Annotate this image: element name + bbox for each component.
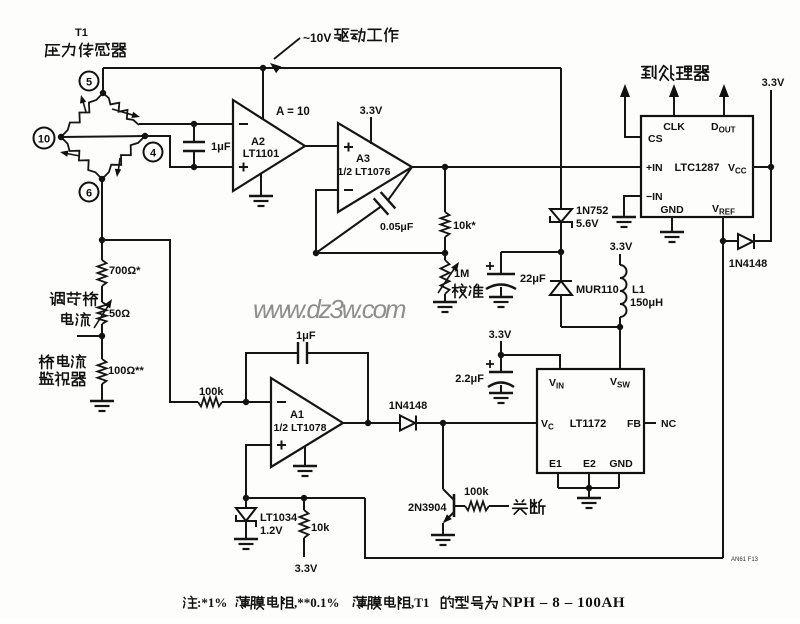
junction A3 feedback bottom-left [313, 250, 319, 256]
svg-text:6: 6 [86, 188, 92, 200]
diode D3 1N4148 (VREF) [723, 234, 754, 249]
wire VREF down [722, 217, 724, 241]
note line [184, 595, 626, 611]
wire A2 V+ supply [262, 68, 264, 119]
wire VC node to Q1 collector [442, 423, 444, 489]
svg-text:10k: 10k [311, 522, 330, 534]
pin 5 [80, 72, 99, 91]
junction A1 out/feedback [365, 420, 371, 426]
ground LT1172 [577, 497, 601, 499]
wire L1 to VSW node [619, 317, 621, 327]
label to processor [642, 66, 709, 81]
wire -IN to ground [624, 196, 641, 217]
ground -IN [612, 216, 636, 218]
svg-text:4: 4 [150, 148, 157, 160]
50 ohm arrow [94, 299, 112, 328]
A1 plus sign [277, 441, 286, 450]
wire A3 supply stub [370, 117, 372, 144]
wire 100 to ground [101, 384, 103, 401]
junction monitor tap [99, 333, 105, 339]
junction VCC 3.3V [768, 164, 774, 170]
wire bridge middle node10 to node4 [61, 136, 145, 137]
IC U2 LTC1287 [641, 116, 753, 217]
label ~10V drive annotation [303, 28, 398, 45]
svg-text:1N4148: 1N4148 [729, 258, 768, 270]
junction bridge-drive sense node [99, 237, 105, 243]
junction LT1034 node [243, 495, 249, 501]
junction VSW node [617, 324, 623, 330]
plus sign 22uF [486, 262, 494, 270]
wire VCC to 3.3V rail [753, 166, 771, 168]
svg-text:3.3V: 3.3V [360, 105, 383, 117]
A3 minus sign [344, 189, 353, 191]
label shutdown [513, 500, 545, 515]
arrow to 10V rail [270, 38, 300, 73]
svg-text:E1: E1 [549, 458, 562, 470]
wire VIN supply [501, 355, 560, 369]
wire DOUT up [723, 96, 725, 116]
pressure sensor bridge: resistor top-right [103, 93, 139, 125]
bridge arrow bottom-right [115, 158, 121, 177]
svg-text:3.3V: 3.3V [762, 77, 785, 89]
arrow CS to processor [620, 84, 630, 97]
pressure sensor bridge T1: resistor top-left [61, 93, 103, 137]
wire base resistor to shutdown [489, 505, 509, 507]
wire FB to NC [644, 422, 656, 424]
wire VREF net down right side [722, 241, 724, 558]
wire A1 ground stub [304, 447, 306, 466]
svg-text:10k*: 10k* [453, 220, 476, 232]
junction 10k bottom [442, 250, 448, 256]
label bridge current [39, 355, 85, 369]
wire A1 output [343, 422, 400, 424]
junction C1 top [191, 121, 197, 127]
svg-text:100Ω**: 100Ω** [108, 365, 144, 377]
wire zener to 10V node [560, 222, 562, 252]
wire 3.3V vertical right [754, 90, 771, 241]
op-amp A3 1/2 LT1076 [338, 123, 412, 212]
wire 1M to ground [444, 294, 446, 302]
ground left chain [90, 400, 114, 402]
node bridge bottom [99, 176, 105, 182]
resistor 100k (base) [465, 502, 489, 511]
wire A1 plus left/down [246, 445, 271, 498]
svg-text:MUR110: MUR110 [576, 284, 619, 296]
label pressure sensor [46, 43, 126, 57]
svg-text:+IN: +IN [646, 162, 663, 174]
svg-text:A2: A2 [251, 136, 265, 148]
ground A2 [249, 195, 273, 197]
resistor 100 ohm [98, 359, 107, 384]
wire monitor tap [77, 335, 102, 337]
svg-text:LT1172: LT1172 [570, 418, 607, 430]
svg-text:50Ω: 50Ω [109, 308, 130, 320]
svg-text:1μF: 1μF [211, 141, 231, 153]
junction 10k tap [301, 495, 307, 501]
svg-text:−IN: −IN [646, 191, 663, 203]
svg-text:E2: E2 [583, 458, 596, 470]
svg-text:1/2 LT1078: 1/2 LT1078 [274, 422, 327, 434]
diode MUR110 [550, 252, 572, 327]
plus sign 2.2uF [486, 360, 494, 368]
arrow DOUT to processor [719, 84, 729, 97]
potentiometer 1M [441, 260, 450, 294]
bridge arrow top-left [80, 95, 86, 112]
wire 700 to 50 [101, 286, 103, 302]
arrow CLK to processor [669, 84, 679, 97]
wire A2 output to A3 [305, 145, 338, 147]
svg-text:3.3V: 3.3V [489, 329, 512, 341]
wire GND down [618, 473, 620, 488]
wire bridge pin4 to A2 plus [145, 136, 233, 167]
wire 50 to 100 [101, 324, 103, 359]
svg-text:1/2 LT1076: 1/2 LT1076 [338, 166, 391, 178]
svg-text:GND: GND [660, 204, 684, 216]
ground LT1034 [234, 538, 258, 540]
wire node to A1 input (right/down) [102, 240, 198, 402]
svg-text:1M: 1M [454, 268, 469, 280]
svg-text:www.dz3w.com: www.dz3w.com [253, 294, 406, 324]
wire 100k to A1 minus [222, 401, 271, 403]
pin 4 [144, 143, 163, 162]
wire A3 out down to 10k [444, 167, 446, 212]
resistor 100k (A1 input) [198, 398, 222, 407]
wire CLK up [673, 96, 675, 116]
svg-text:GND: GND [609, 458, 633, 470]
wire MUR110 to VSW node [561, 326, 620, 328]
IC U3 LT1172 [537, 369, 644, 473]
junction E2 ground [586, 485, 592, 491]
diode D4 1N4148 (A1 out) [400, 416, 443, 431]
bridge arrow bottom-left [60, 151, 80, 157]
node bridge top [100, 90, 106, 96]
svg-text::*1%: :*1% [197, 595, 227, 610]
svg-text:,T1: ,T1 [411, 595, 429, 610]
svg-text:NC: NC [661, 418, 677, 430]
svg-text:1μF: 1μF [296, 330, 316, 342]
wire 3.3V stub [500, 341, 502, 355]
svg-text:LT1034: LT1034 [260, 512, 298, 524]
wire 10k to bottom node [444, 237, 446, 253]
wire down to 1M pot [444, 253, 446, 260]
wire E1 down [557, 473, 559, 488]
svg-text:3.3V: 3.3V [610, 241, 633, 253]
svg-text:1.2V: 1.2V [260, 525, 283, 537]
svg-text:100k: 100k [464, 486, 489, 498]
wire 10k stub [303, 498, 305, 510]
wire A3 bottom feedback horizontal [316, 252, 445, 254]
label adjust bridge [50, 292, 97, 306]
svg-text:,**0.1%: ,**0.1% [294, 595, 340, 610]
node bridge right (pin4) [142, 133, 148, 139]
svg-text:A3: A3 [356, 153, 370, 165]
junction rail-A2 supply [260, 65, 266, 71]
pin 6 [80, 183, 99, 202]
svg-text:700Ω*: 700Ω* [109, 265, 141, 277]
wire A3 output to LTC1287 +IN [412, 166, 641, 168]
svg-text:T1: T1 [75, 27, 88, 39]
wire A2 ground stub [260, 173, 262, 196]
wire ref node to bottom rail [365, 498, 723, 558]
svg-text:3.3V: 3.3V [295, 563, 318, 575]
wire to ground LT1172 [588, 488, 590, 498]
junction 3.3V VIN node [498, 352, 504, 358]
wire GND pin stub [671, 217, 673, 232]
wire emitter bus [558, 487, 619, 489]
svg-text:5.6V: 5.6V [576, 218, 599, 230]
svg-text:10: 10 [38, 134, 50, 146]
svg-text:2.2μF: 2.2μF [455, 373, 484, 385]
op-amp A2 LT1101 [233, 100, 305, 191]
wire VSW node down to LT1172 [619, 327, 621, 369]
transistor Q1 2N3904 [443, 489, 454, 535]
op-amp A1 1/2 LT1078 [271, 378, 343, 467]
wire bridge out upper to A2 minus [139, 123, 233, 125]
wire E2 down [588, 473, 590, 488]
ground Q1 emitter [431, 534, 455, 536]
svg-text:A = 10: A = 10 [276, 106, 310, 118]
wire CS left and up [625, 96, 641, 137]
wire bridge bottom down [101, 179, 103, 240]
capacitor C2 0.05uF on diagonal + diagonal wire [316, 167, 412, 253]
junction A3 output node [442, 164, 448, 170]
svg-text:FB: FB [627, 418, 641, 430]
ground 22uF [489, 296, 513, 298]
svg-text:1N4148: 1N4148 [389, 400, 428, 412]
pressure sensor bridge: resistor bottom-right [102, 136, 145, 179]
ground 1M [433, 301, 457, 303]
ground LTC1287 [660, 231, 684, 233]
junction VREF node [720, 238, 726, 244]
junction VC node [440, 420, 446, 426]
wire 10k to 3.3V [303, 538, 305, 557]
wire bridge top to rail [102, 68, 104, 94]
wire node to 22uF [501, 251, 561, 253]
svg-text:2N3904: 2N3904 [408, 502, 447, 514]
inductor L1 150uH [620, 265, 627, 317]
node bridge left [58, 134, 64, 140]
potentiometer 50 ohm [98, 302, 107, 324]
wire +10V top rail [103, 67, 561, 69]
svg-text:LTC1287: LTC1287 [674, 162, 719, 174]
svg-text:CS: CS [648, 133, 663, 145]
pressure sensor bridge: resistor bottom-left [61, 137, 102, 179]
A2 plus sign [239, 163, 248, 172]
svg-text:150μH: 150μH [630, 297, 663, 309]
wire Q1 base [454, 505, 465, 507]
svg-text:LT1101: LT1101 [243, 148, 280, 160]
wire to 700ohm [101, 240, 103, 260]
svg-text:CLK: CLK [663, 121, 685, 133]
svg-text:L1: L1 [632, 284, 645, 296]
junction C1 bottom [191, 164, 197, 170]
zener LT1034 1.2V [236, 498, 256, 539]
1M pot arrow [438, 262, 459, 293]
ground A1 [293, 465, 317, 467]
capacitor C4 2.2uF [488, 355, 514, 393]
svg-text:~10V: ~10V [303, 31, 331, 45]
svg-text:0.05μF: 0.05μF [380, 221, 414, 233]
bridge arrow top-right [112, 109, 140, 118]
resistor 700 ohm [98, 260, 107, 286]
svg-text:5: 5 [86, 77, 92, 89]
capacitor C1 1uF [183, 124, 205, 167]
svg-text:22μF: 22μF [520, 273, 546, 285]
capacitor C5 1uF feedback [246, 342, 368, 423]
pin 10 [34, 128, 55, 149]
svg-text:100k: 100k [199, 386, 224, 398]
A3 plus sign [344, 143, 353, 152]
wire to VC pin [443, 422, 537, 424]
label current [62, 313, 90, 326]
junction 10V output node [558, 249, 564, 255]
ground 2.2uF [489, 392, 513, 394]
wire reference node horizontal [246, 497, 365, 499]
svg-text:1N752: 1N752 [576, 205, 608, 217]
label monitor [39, 372, 85, 386]
resistor 10k (ref) [300, 510, 309, 538]
svg-text:AN61 F13: AN61 F13 [731, 557, 759, 563]
label calibrate [452, 284, 482, 298]
junction A1 feedback tap [243, 399, 249, 405]
resistor 10k* [441, 212, 450, 237]
zener diode 1N752 [550, 209, 572, 228]
A1 minus sign [277, 401, 286, 403]
A2 minus sign [239, 123, 248, 125]
wire 3.3V stub to L1 [619, 254, 621, 265]
svg-text:NPH – 8 – 100AH: NPH – 8 – 100AH [502, 595, 625, 611]
wire A3 minus feedback left/down [316, 190, 338, 253]
svg-text:A1: A1 [290, 409, 304, 421]
wire 10V rail down through crossing [560, 68, 562, 209]
capacitor C3 22uF polarized [486, 252, 516, 297]
